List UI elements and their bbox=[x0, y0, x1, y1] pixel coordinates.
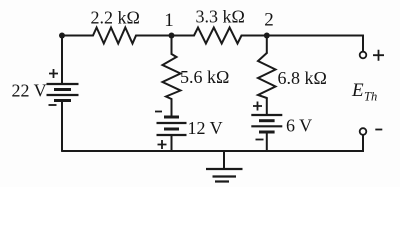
svg-text:6.8 kΩ: 6.8 kΩ bbox=[278, 68, 327, 88]
svg-text:22 V: 22 V bbox=[12, 81, 47, 101]
svg-text:12 V: 12 V bbox=[188, 118, 223, 138]
svg-text:1: 1 bbox=[164, 10, 174, 31]
svg-text:E: E bbox=[351, 80, 364, 101]
svg-text:3.3 kΩ: 3.3 kΩ bbox=[196, 7, 245, 27]
svg-text:Th: Th bbox=[364, 90, 377, 104]
svg-text:2: 2 bbox=[264, 10, 274, 31]
svg-text:6 V: 6 V bbox=[286, 116, 312, 136]
svg-text:5.6 kΩ: 5.6 kΩ bbox=[180, 67, 229, 87]
svg-text:2.2 kΩ: 2.2 kΩ bbox=[91, 8, 140, 28]
